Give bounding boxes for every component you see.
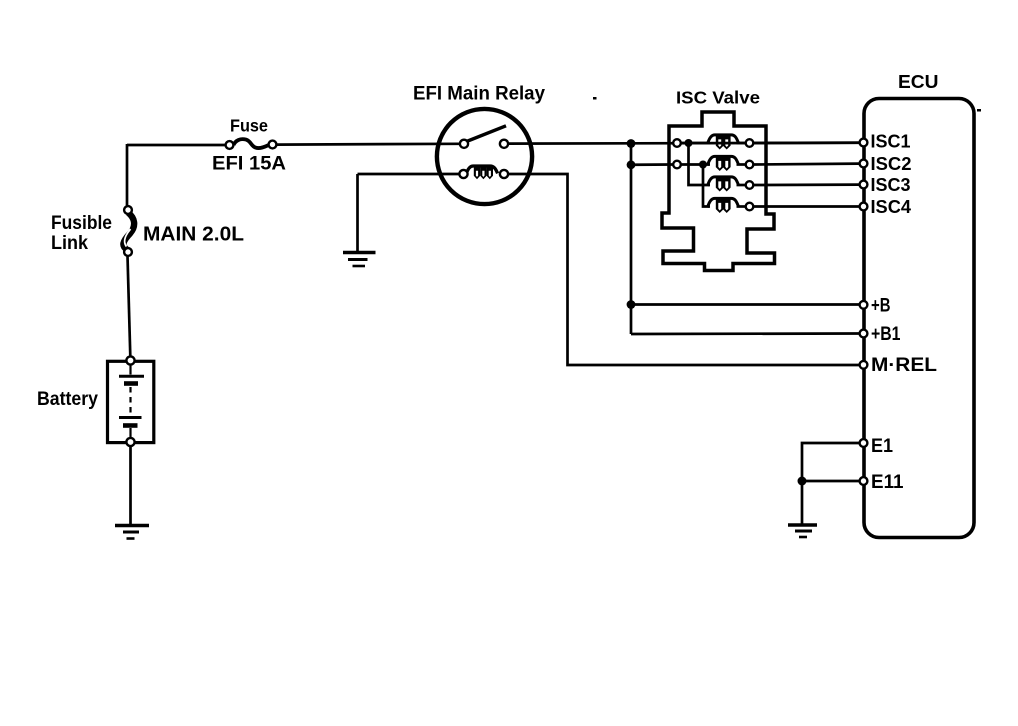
svg-text:ISC4: ISC4 — [871, 197, 912, 217]
svg-text:E1: E1 — [871, 436, 893, 457]
svg-text:Link: Link — [51, 232, 88, 254]
svg-text:ISC1: ISC1 — [871, 132, 911, 152]
svg-text:E11: E11 — [871, 472, 904, 493]
svg-text:ECU: ECU — [898, 71, 939, 92]
svg-text:+B: +B — [871, 296, 891, 317]
svg-text:EFI Main Relay: EFI Main Relay — [413, 84, 545, 105]
svg-text:+B1: +B1 — [871, 324, 901, 345]
svg-text:M·REL: M·REL — [871, 355, 937, 376]
svg-text:Fusible: Fusible — [51, 212, 112, 234]
svg-text:EFI 15A: EFI 15A — [212, 153, 286, 175]
svg-text:ISC3: ISC3 — [871, 175, 911, 195]
svg-text:Fuse: Fuse — [230, 116, 268, 136]
svg-text:ISC2: ISC2 — [871, 154, 912, 174]
svg-text:MAIN 2.0L: MAIN 2.0L — [143, 224, 244, 246]
svg-text:ISC Valve: ISC Valve — [676, 88, 760, 108]
svg-text:Battery: Battery — [37, 388, 98, 410]
